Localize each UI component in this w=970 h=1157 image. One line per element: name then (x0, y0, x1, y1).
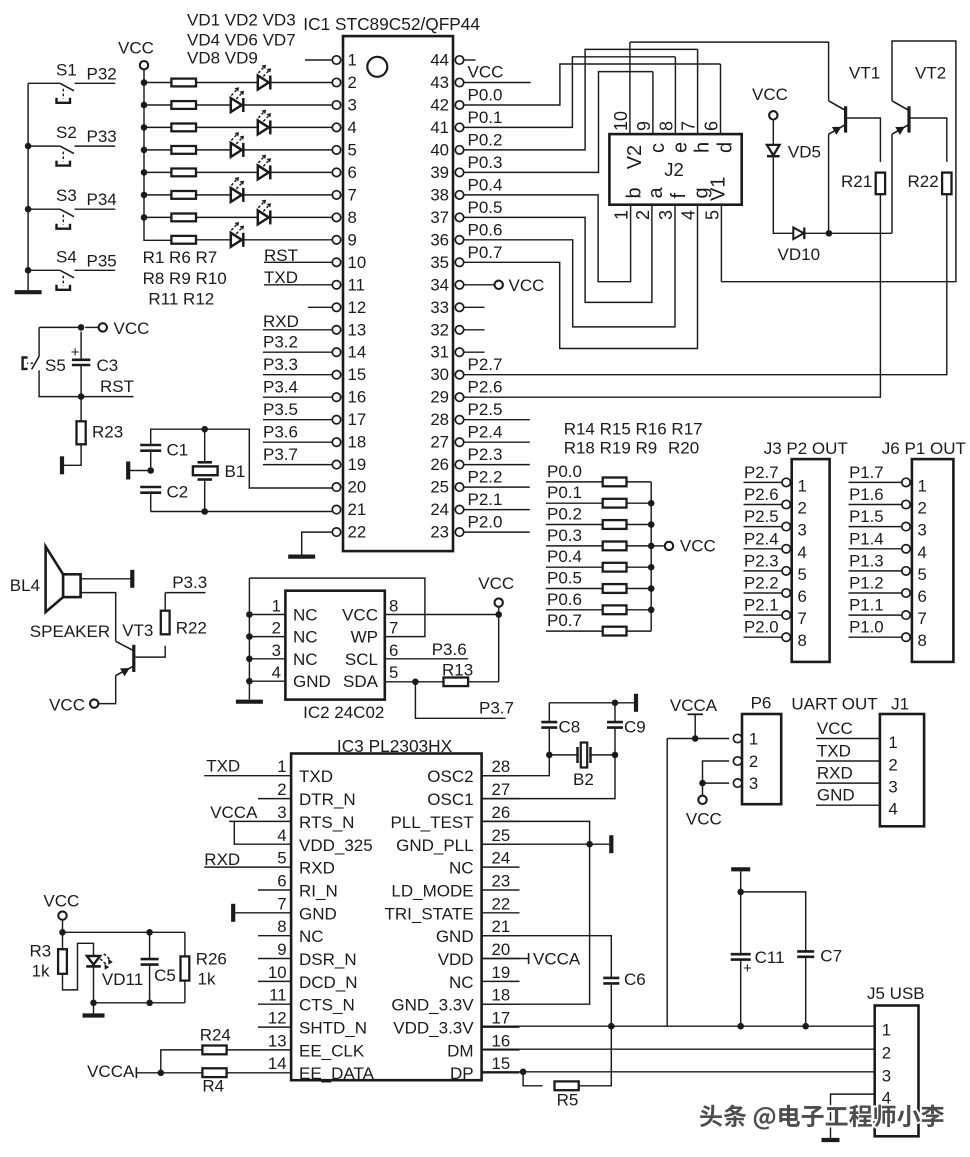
svg-text:20: 20 (492, 940, 511, 959)
wire P2.1 stub (464, 509, 530, 511)
wire P0.4 to J2 (464, 195, 631, 282)
pin 34 IC1 (455, 281, 463, 289)
wire IC3 pin 26 stub (482, 820, 520, 822)
svg-text:VCC: VCC (43, 892, 79, 911)
label J2 segment d (715, 142, 737, 153)
wire P0.2 ladder left (546, 524, 603, 526)
label J3 P2 OUT (764, 439, 848, 458)
resistor ladder R20 (603, 605, 627, 614)
svg-text:5: 5 (348, 140, 357, 159)
svg-text:P6: P6 (751, 694, 772, 713)
label S2 (56, 123, 77, 142)
svg-text:6: 6 (702, 121, 722, 131)
wire C2 to XTAL bottom (150, 493, 152, 512)
svg-text:P0.4: P0.4 (547, 547, 582, 566)
pin 7 J2 (679, 121, 699, 131)
junction B1 bottom (201, 508, 208, 515)
svg-text:S2: S2 (56, 123, 77, 142)
label P2.4 (pin27) (468, 423, 503, 442)
junction RST node (78, 393, 85, 400)
pin 2 IC2 (272, 619, 281, 638)
pin 17 IC3 (492, 1009, 511, 1028)
label B2 (573, 770, 594, 789)
pin 14 IC3 (268, 1054, 287, 1073)
pin 7 IC2 (389, 619, 398, 638)
svg-text:RXD: RXD (204, 850, 240, 869)
svg-text:33: 33 (430, 298, 449, 317)
wire C11 node to C7 (741, 892, 806, 952)
label TXD (IC3) (206, 757, 240, 776)
label SDA IC2 (343, 672, 379, 691)
label P0.1 (pin41) (468, 108, 503, 127)
svg-text:c: c (647, 143, 669, 153)
svg-text:RTS_N: RTS_N (299, 813, 354, 832)
pin 40 IC1 (455, 146, 463, 154)
label GND IC3 (436, 927, 474, 946)
label J1 (891, 695, 909, 714)
wire TXD to J1 pin 2 (816, 760, 880, 762)
label J2 (664, 159, 684, 180)
svg-text:S5: S5 (45, 356, 66, 375)
svg-text:21: 21 (348, 500, 367, 519)
svg-text:P0.6: P0.6 (468, 220, 503, 239)
wire TXD to IC1 pin 11 (264, 284, 332, 286)
svg-text:3: 3 (918, 521, 927, 540)
pin 6 IC2 (389, 641, 398, 660)
svg-text:VCCA: VCCA (533, 949, 581, 968)
pin 3 J1 (888, 778, 897, 797)
label P2.5 (J3) (744, 507, 779, 526)
wire IC2 VCC pin 8 (385, 614, 499, 616)
label P3.6 (SCL) (432, 640, 467, 659)
resistor R22 (VT3 base) (161, 611, 170, 635)
pin 7 J6 (902, 611, 910, 619)
label P0.2 (pin40) (468, 130, 503, 149)
svg-text:5: 5 (702, 210, 722, 220)
label R4 (202, 1077, 224, 1096)
svg-text:b: b (624, 187, 646, 198)
label P0.6 (ladder) (547, 590, 582, 609)
wire R4 to pin14 (227, 1072, 259, 1074)
wire RST node stub (81, 396, 133, 398)
svg-text:+: + (743, 960, 752, 977)
pin 5 J6 (902, 567, 910, 575)
pin 21 IC3 (492, 917, 511, 936)
junction P6 pin3/VCC (699, 780, 706, 787)
svg-text:R11 R12: R11 R12 (148, 290, 214, 309)
wire P2.1 to J3 pin 7 (744, 614, 782, 616)
wire R23 to ground (64, 444, 82, 465)
svg-text:R23: R23 (92, 423, 123, 442)
wire C11 top lead (740, 892, 742, 954)
wire VCC to resistor row 4 (144, 149, 172, 151)
capacitor C8 (541, 722, 557, 728)
label P6 (751, 694, 772, 713)
label P0.0 (pin42) (468, 86, 503, 105)
wire R5 to VDD rail (579, 1026, 612, 1086)
label VCCA (bottom) (87, 1062, 135, 1081)
svg-text:R4: R4 (202, 1077, 224, 1096)
resistor R13 (444, 678, 469, 687)
speaker BL4 (46, 547, 81, 613)
capacitor C6 (603, 978, 619, 984)
capacitor C1 (140, 445, 161, 451)
pin 21 IC1 (332, 505, 340, 513)
svg-text:VCCA: VCCA (670, 696, 718, 715)
transistor VT1 (829, 101, 846, 135)
pin 5 J2 (702, 210, 722, 220)
label P2.0 (pin23) (468, 513, 503, 532)
power VCC (LED VD11) (43, 892, 79, 911)
wire VCCA to pin3 (229, 820, 258, 822)
svg-text:V1: V1 (707, 177, 729, 201)
svg-text:C6: C6 (624, 970, 646, 989)
pin 7 J3 (782, 611, 790, 619)
wire VCC node down to R13 (498, 615, 500, 682)
pin 44 IC1 (455, 56, 463, 64)
pin 3 IC3 (277, 803, 286, 822)
svg-text:36: 36 (430, 230, 449, 249)
label P2.3 (J3) (744, 551, 779, 570)
wire P0.3 ladder left (546, 545, 603, 547)
svg-text:5: 5 (389, 663, 398, 682)
capacitor C7 (797, 951, 814, 956)
pin 8 J3 (782, 633, 790, 641)
pin 13 IC1 (332, 326, 340, 334)
svg-text:P2.4: P2.4 (468, 423, 503, 442)
svg-text:DM: DM (447, 1041, 473, 1060)
pin 12 IC1 (332, 303, 340, 311)
svg-text:P1.0: P1.0 (849, 618, 884, 637)
wire P2.3 stub (464, 464, 530, 466)
terminal bar (speaker) (130, 570, 134, 588)
svg-text:2: 2 (633, 210, 653, 220)
wire VCC to VD5 (772, 120, 774, 145)
svg-text:8: 8 (918, 631, 927, 650)
wire ground to C11 node (740, 871, 742, 892)
svg-text:R22: R22 (176, 619, 207, 638)
svg-text:P2.0: P2.0 (744, 618, 779, 637)
junction VCC bus row 1 (141, 79, 148, 86)
wire speaker top terminal (81, 578, 131, 580)
svg-text:IC3 PL2303HX: IC3 PL2303HX (337, 736, 453, 756)
svg-text:VD4 VD6 VD7: VD4 VD6 VD7 (187, 31, 296, 50)
wire XTAL bottom (151, 511, 333, 513)
junction IC2 VCC (495, 611, 502, 618)
svg-text:19: 19 (348, 455, 367, 474)
junction ladder row 6 (648, 607, 655, 614)
svg-text:6: 6 (348, 163, 357, 182)
label P0.5 (ladder) (547, 569, 582, 588)
svg-text:8: 8 (656, 121, 676, 131)
wire resistor to LED row 6 (196, 194, 231, 196)
label P0.4 (ladder) (547, 547, 582, 566)
transistor VT2 (892, 101, 909, 135)
wire VD10 to junction (804, 232, 829, 234)
pin 1 IC2 (272, 597, 281, 616)
wire P1.4 to J6 pin 4 (849, 548, 902, 550)
wire R24 to pin13 (227, 1049, 259, 1051)
svg-text:2: 2 (348, 73, 357, 92)
svg-text:8: 8 (389, 597, 398, 616)
svg-text:P3.5: P3.5 (263, 400, 298, 419)
pin 1 J1 (888, 733, 897, 752)
wire J5 pin4 to ground (831, 1094, 875, 1138)
svg-text:B1: B1 (225, 462, 246, 481)
wire P3.5 to IC1 pin 17 (263, 419, 332, 421)
svg-text:f: f (668, 193, 690, 199)
label EE_DATA IC3 (299, 1064, 375, 1083)
label P2.1 (pin24) (468, 490, 503, 509)
svg-text:6: 6 (798, 587, 807, 606)
wire VCC to reset node (39, 326, 81, 328)
svg-text:P3.3: P3.3 (263, 355, 298, 374)
svg-text:NC: NC (293, 650, 318, 669)
pin 3 J6 (902, 522, 910, 530)
wire IC1 pin 33 stub (464, 306, 485, 308)
junction R3 top (59, 929, 66, 936)
junction C5 top (146, 929, 153, 936)
switch S5 (23, 356, 39, 369)
junction VCC bus row 5 (141, 169, 148, 176)
pin 4 J6 (902, 545, 910, 553)
label RST (pin10) (264, 246, 298, 265)
label J2 segment b (624, 187, 646, 198)
wire P0.0 ladder left (546, 481, 603, 483)
wire C9 top (614, 703, 616, 722)
pin 10 IC3 (268, 963, 287, 982)
label 1k (R26) (198, 970, 216, 989)
resistor R4 (202, 1068, 226, 1077)
capacitor C11 (731, 954, 751, 959)
pin 1 J2 (612, 210, 632, 220)
svg-text:P32: P32 (87, 64, 117, 83)
pin 19 IC1 (332, 460, 340, 468)
pin 41 IC1 (455, 123, 463, 131)
wire IC3 pin 23 stub (482, 889, 520, 891)
pin 23 IC3 (492, 872, 511, 891)
wire P3.2 to IC1 pin 14 (263, 351, 332, 353)
svg-text:EE_DATA: EE_DATA (299, 1064, 375, 1083)
svg-text:VT3: VT3 (122, 621, 153, 640)
resistor R22 (top right) (942, 173, 951, 195)
svg-text:1: 1 (749, 730, 758, 749)
label P33 (87, 127, 117, 146)
wire R3 to VD11 (63, 943, 94, 990)
svg-text:8: 8 (277, 917, 286, 936)
LED VD8 (231, 222, 244, 247)
pin 32 IC1 (455, 326, 463, 334)
svg-text:26: 26 (430, 455, 449, 474)
svg-text:27: 27 (430, 433, 449, 452)
label OSC2 IC3 (427, 767, 473, 786)
wire VCC to resistor row 3 (144, 126, 172, 128)
svg-text:37: 37 (430, 208, 449, 227)
svg-text:C7: C7 (820, 947, 842, 966)
label P2.0 (J3) (744, 618, 779, 637)
wire LED to IC1 pin 7 (243, 194, 332, 196)
pin 4 IC2 (272, 663, 281, 682)
wire C7 bottom lead (805, 957, 807, 1026)
wire node P34 (75, 208, 116, 210)
pin 10 J2 (611, 111, 631, 131)
wire IC3 pin 15 stub (482, 1072, 520, 1074)
label R26 (196, 950, 227, 969)
svg-text:3: 3 (798, 521, 807, 540)
svg-text:VCC: VCC (478, 574, 514, 593)
pin 30 IC1 (455, 371, 463, 379)
svg-text:38: 38 (430, 185, 449, 204)
label S3 (56, 186, 77, 205)
connector P6 body (742, 714, 781, 804)
wire OSC top rail (549, 702, 634, 704)
wire P1.7 to J6 pin 1 (849, 481, 902, 483)
svg-text:3: 3 (348, 96, 357, 115)
svg-text:J1: J1 (891, 695, 909, 714)
svg-text:3: 3 (656, 210, 676, 220)
pin 1 J3 (782, 478, 790, 486)
label P0.5 (pin37) (468, 198, 503, 217)
wire VCCA rail down to VDD rail (666, 739, 668, 1027)
svg-text:8: 8 (348, 208, 357, 227)
svg-text:31: 31 (430, 343, 449, 362)
wire IC3 pin 21 stub (482, 935, 520, 937)
svg-text:R21: R21 (841, 172, 872, 191)
svg-text:SPEAKER: SPEAKER (30, 622, 110, 641)
svg-text:e: e (669, 142, 691, 153)
wire J2 pin 5 to VT2 collector (721, 41, 956, 282)
wire S4 left contact (28, 269, 60, 271)
wire P0.5 ladder right (627, 588, 652, 590)
pin 2 P6 (733, 757, 741, 765)
pin 23 IC1 (455, 528, 463, 536)
pin 13 IC3 (268, 1031, 287, 1050)
label P0.3 (ladder) (547, 526, 582, 545)
svg-text:13: 13 (268, 1031, 287, 1050)
label P2.1 (J3) (744, 596, 779, 615)
svg-text:VDD_325: VDD_325 (299, 836, 373, 855)
svg-text:R8 R9 R10: R8 R9 R10 (143, 269, 227, 288)
resistor R9 (171, 169, 196, 177)
junction C7 bottom (802, 1023, 809, 1030)
svg-text:44: 44 (430, 51, 449, 70)
svg-text:4: 4 (888, 800, 897, 819)
svg-text:VCC: VCC (468, 63, 504, 82)
svg-text:10: 10 (348, 253, 367, 272)
junction VD11 bottom (90, 1000, 97, 1007)
pin 9 IC3 (277, 940, 286, 959)
connector J1 body (880, 714, 924, 826)
label S1 (56, 60, 77, 79)
wire resistor to LED row 3 (196, 126, 258, 128)
wire IC3 pin 14 stub (258, 1072, 291, 1074)
wire resistor to LED row 5 (196, 171, 258, 173)
wire P1.6 to J6 pin 2 (849, 504, 902, 506)
label R11 R12 (148, 290, 214, 309)
junction VCC bus row 3 (141, 124, 148, 131)
wire R24 to VCCA node (161, 1050, 203, 1073)
label P0.7 (pin35) (468, 243, 503, 262)
wire IC3 pin 25 stub (482, 843, 520, 845)
wire IC3 pin 7 stub (258, 912, 291, 914)
switch S3 (57, 209, 75, 229)
svg-text:OSC2: OSC2 (427, 767, 473, 786)
label VCCA (IC3 pin3) (210, 803, 258, 822)
label P0.6 (pin36) (468, 220, 503, 239)
svg-text:7: 7 (389, 619, 398, 638)
svg-text:P1.4: P1.4 (849, 529, 884, 548)
pin 38 IC1 (455, 191, 463, 199)
wire ground lead (VD11) (93, 1003, 95, 1014)
junction B1 top (201, 426, 208, 433)
svg-text:13: 13 (348, 320, 367, 339)
svg-text:C3: C3 (97, 356, 119, 375)
svg-text:P2.3: P2.3 (744, 551, 779, 570)
wire top rail (63, 931, 185, 933)
svg-text:10: 10 (611, 111, 631, 131)
label S4 (56, 247, 77, 266)
wire J2 pin 8 stub (674, 57, 676, 134)
svg-text:18: 18 (348, 433, 367, 452)
label GND_PLL IC3 (396, 836, 473, 855)
junction ladder row 3 (648, 543, 655, 550)
ground bar (C11 top) (731, 867, 750, 871)
pin 3 J2 (656, 210, 676, 220)
power VCC (IC2) (478, 574, 514, 593)
wire P2.2 to J3 pin 6 (744, 592, 782, 594)
label DSR_N IC3 (299, 950, 357, 969)
svg-text:BL4: BL4 (10, 576, 40, 595)
pin 2 IC1 (332, 78, 340, 86)
pin 39 IC1 (455, 168, 463, 176)
wire P2.6 to J3 pin 2 (744, 504, 782, 506)
label GND IC2 (293, 672, 331, 691)
svg-text:1k: 1k (198, 970, 216, 989)
wire C5 top lead (149, 932, 151, 959)
wire ground to pin7 (235, 912, 258, 914)
pin 7 IC1 (332, 191, 340, 199)
pin 26 IC1 (455, 460, 463, 468)
wire P2.7 to R22 bottom (464, 194, 947, 374)
svg-text:P0.1: P0.1 (547, 483, 582, 502)
wire P2.4 to J3 pin 4 (744, 548, 782, 550)
svg-text:P1.5: P1.5 (849, 507, 884, 526)
svg-text:P3.4: P3.4 (263, 378, 298, 397)
wire TXD to IC3 pin1 (204, 775, 258, 777)
svg-text:NC: NC (293, 628, 318, 647)
svg-text:21: 21 (492, 917, 511, 936)
switch S2 (57, 146, 75, 166)
label 1k (R3) (32, 962, 50, 981)
wire VT3 emitter to VCC (98, 676, 115, 704)
pin 15 IC3 (492, 1054, 511, 1073)
svg-text:4: 4 (918, 543, 927, 562)
op-amp IC1 STC89C52 body (343, 36, 453, 551)
wire bottom rail (94, 1002, 185, 1004)
pin 9 J2 (634, 121, 654, 131)
pin 31 IC1 (455, 348, 463, 356)
svg-text:DSR_N: DSR_N (299, 950, 357, 969)
label R8 R9 R10 (143, 269, 227, 288)
label NC IC2 (293, 606, 318, 625)
wire junction to VT2 emitter (829, 232, 892, 234)
wire IC3 pin 9 stub (258, 958, 291, 960)
ground switch bus (15, 290, 42, 294)
svg-text:10: 10 (268, 963, 287, 982)
wire RST node to R23 (80, 397, 82, 422)
pin 4 IC3 (277, 826, 286, 845)
ground (VD11) (83, 1013, 105, 1017)
